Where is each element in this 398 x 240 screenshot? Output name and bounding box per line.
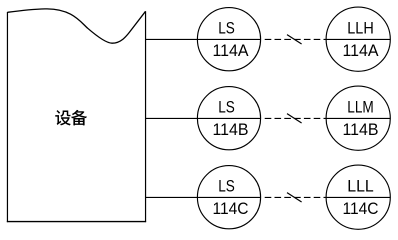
- vessel right edge: [145, 11, 147, 222]
- wire: horizontal diameter of LLH 114A balloon: [326, 38, 390, 40]
- signal break slash row C: [287, 193, 302, 202]
- wire: vessel to LS 114C balloon (horizontal diameter): [146, 196, 261, 198]
- signal break slash row B: [287, 114, 302, 123]
- svg-text:LS: LS: [218, 98, 235, 116]
- dashed signal line LS 114B to LLM 114B: [265, 117, 327, 119]
- svg-text:LLL: LLL: [347, 178, 374, 196]
- instrument balloon LS 114B: [197, 87, 260, 150]
- svg-text:114C: 114C: [213, 200, 249, 218]
- instrument balloon LLL 114C: [326, 165, 390, 229]
- signal break slash row A: [287, 35, 302, 44]
- vessel (equipment): wavy broken top edge: [7, 9, 145, 43]
- svg-text:114B: 114B: [343, 121, 379, 139]
- svg-text:114C: 114C: [343, 200, 379, 218]
- svg-text:114A: 114A: [343, 42, 379, 60]
- wire: horizontal diameter of LLL 114C balloon: [326, 196, 390, 198]
- instrument balloon LLM 114B: [326, 86, 390, 150]
- wire: vessel to LS 114B balloon (horizontal diameter): [146, 117, 261, 119]
- instrument balloon LS 114A: [197, 8, 260, 71]
- svg-text:LS: LS: [218, 19, 235, 37]
- svg-text:114A: 114A: [213, 42, 249, 60]
- vessel left edge: [6, 12, 8, 222]
- svg-text:LS: LS: [218, 177, 235, 195]
- wire: vessel to LS 114A balloon (horizontal diameter): [146, 38, 261, 40]
- instrument balloon LLH 114A: [326, 7, 390, 71]
- svg-text:LLH: LLH: [347, 20, 374, 38]
- wire: horizontal diameter of LLM 114B balloon: [326, 117, 390, 119]
- instrument balloon LS 114C: [197, 166, 260, 229]
- dashed signal line LS 114A to LLH 114A: [265, 38, 327, 40]
- dashed signal line LS 114C to LLL 114C: [265, 196, 327, 198]
- vessel label 设备 (equipment), glyph outlines: [55, 110, 87, 126]
- vessel bottom edge: [7, 221, 146, 223]
- svg-text:114B: 114B: [213, 121, 249, 139]
- svg-text:LLM: LLM: [347, 99, 374, 117]
